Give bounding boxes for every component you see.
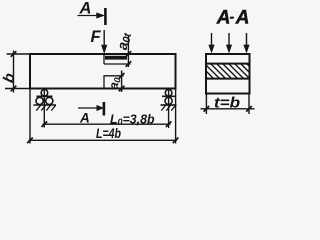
svg-text:L=4b: L=4b [96, 126, 121, 141]
svg-text:a0: a0 [106, 76, 122, 90]
svg-text:b: b [0, 71, 19, 84]
svg-text:a0t: a0t [114, 31, 134, 51]
svg-text:A: A [235, 7, 250, 28]
svg-text:A: A [216, 7, 231, 28]
svg-text:A: A [79, 111, 90, 126]
svg-text:-: - [230, 9, 234, 24]
svg-text:A: A [79, 0, 92, 18]
svg-text:t=b: t=b [214, 94, 240, 111]
svg-text:F: F [91, 28, 102, 46]
